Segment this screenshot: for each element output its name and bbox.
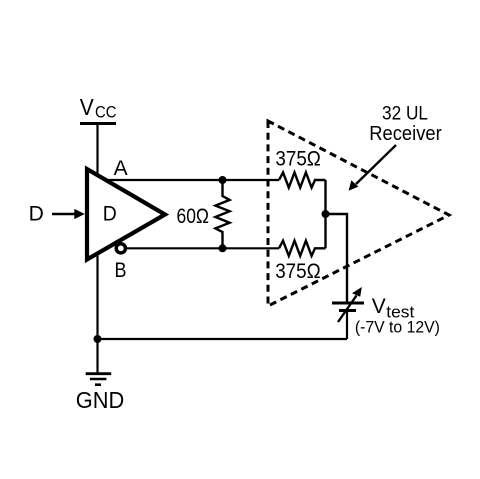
source Vtest symbol bottom bar	[339, 309, 356, 312]
source Vtest symbol top bar	[332, 302, 364, 305]
wire B	[125, 247, 279, 249]
driver U1 triangle	[87, 169, 165, 260]
junction dot B	[219, 244, 227, 252]
svg-text:Receiver: Receiver	[369, 123, 442, 145]
svg-text:375Ω: 375Ω	[275, 260, 321, 283]
junction dot A	[219, 176, 227, 184]
wire right vertical joining resistors	[324, 180, 326, 248]
junction dot bottom	[94, 335, 102, 343]
svg-text:60Ω: 60Ω	[177, 205, 210, 228]
ground	[96, 339, 98, 374]
receiver U2 dashed triangle	[268, 121, 449, 306]
svg-text:(-7V to 12V): (-7V to 12V)	[355, 318, 440, 336]
wire A	[104, 179, 279, 181]
bottom wire	[98, 338, 348, 340]
svg-text:D: D	[29, 202, 44, 225]
wire Vtest to bottom	[346, 311, 348, 340]
wire VCC vertical	[96, 124, 98, 340]
junction dot center	[322, 210, 330, 218]
svg-text:D: D	[103, 202, 117, 225]
wire junction to Vtest branch	[326, 214, 348, 303]
svg-text:32 UL: 32 UL	[382, 104, 428, 125]
Vtest variable arrow	[338, 296, 357, 323]
svg-text:GND: GND	[76, 387, 125, 413]
power rail VCC bar	[80, 122, 116, 125]
inversion bubble	[116, 244, 125, 253]
svg-text:B: B	[115, 259, 127, 282]
svg-text:375Ω: 375Ω	[275, 147, 321, 170]
resistor 375ohm bottom	[279, 241, 326, 256]
pointer arrow to receiver	[356, 145, 396, 184]
svg-text:CC: CC	[95, 103, 117, 121]
resistor 60ohm	[215, 180, 229, 248]
svg-text:V: V	[80, 94, 95, 120]
input arrow	[52, 213, 76, 215]
svg-text:V: V	[372, 295, 386, 318]
resistor 375ohm top	[279, 172, 326, 187]
svg-text:A: A	[114, 157, 128, 180]
